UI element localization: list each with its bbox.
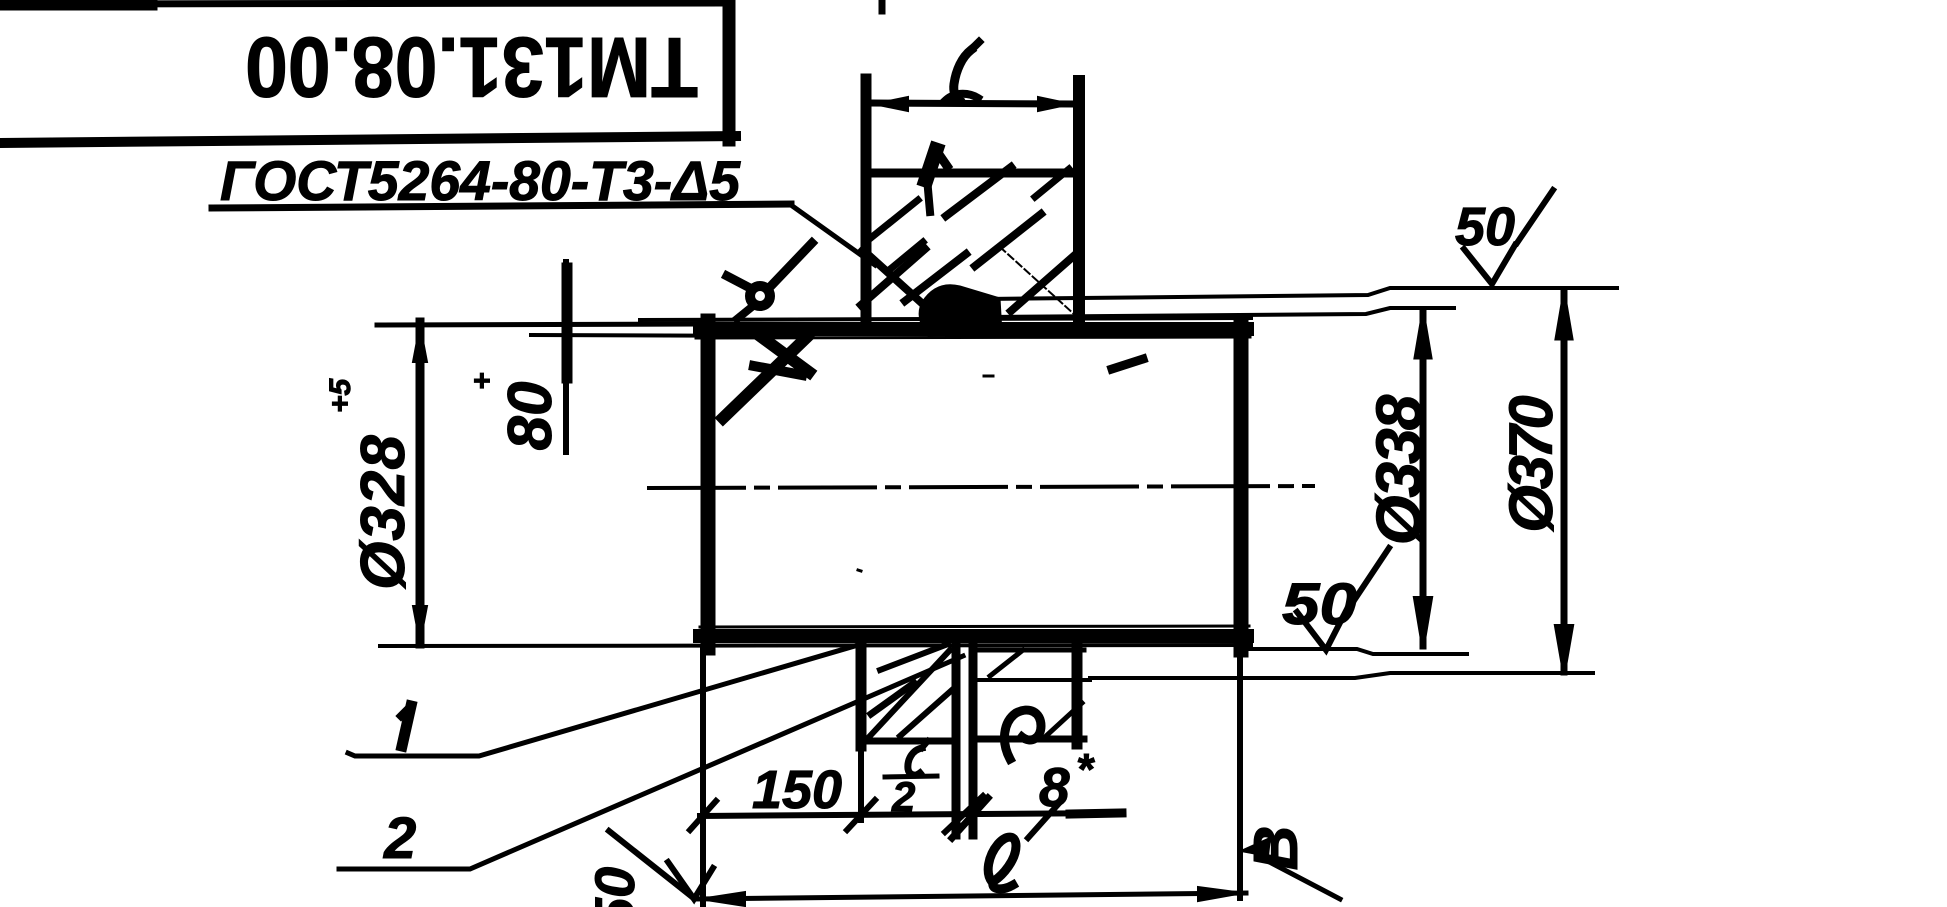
flange right extension line <box>1073 81 1085 330</box>
pipe top dashed band <box>700 322 1247 336</box>
weld X mark on flange edge <box>863 250 925 306</box>
bottom flange right box top edge <box>979 648 1084 653</box>
bottom full dim line <box>697 893 1246 899</box>
weld label A <box>723 337 807 418</box>
phi338 top arrow <box>1415 311 1431 358</box>
phi370 label rotated <box>1497 395 1565 532</box>
dimension L right arrow <box>1038 97 1071 111</box>
weld symbol lower stub <box>737 306 753 319</box>
label L <box>954 50 971 100</box>
svg-text:+5: +5 <box>324 377 357 413</box>
tick at 700 <box>690 801 716 830</box>
right upper extension line <box>985 288 1617 299</box>
speck 1 <box>984 375 993 378</box>
bottom dim line 150/L2/8 <box>700 813 1122 816</box>
weld symbol tail up-right <box>770 243 812 287</box>
phi370 dimension line <box>1561 291 1568 672</box>
leader 2 line <box>339 656 963 869</box>
svg-text:Ø338: Ø338 <box>1363 394 1435 545</box>
phi338 dimension line <box>1420 310 1427 646</box>
flange hatch 6 <box>1011 254 1076 311</box>
flange left extension line <box>861 79 872 330</box>
phi338 bottom arrow <box>1415 598 1431 646</box>
left dim top arrow <box>413 325 427 362</box>
svg-text:50: 50 <box>583 867 646 907</box>
dimension 80 label rotated <box>466 372 565 450</box>
label l script <box>988 837 1016 889</box>
weld bead blob <box>919 285 1002 336</box>
dimension L line <box>872 103 1073 104</box>
flange hatch 1 <box>872 200 918 237</box>
weld symbol tail up-left <box>727 276 750 288</box>
phi370 top arrow <box>1556 292 1572 339</box>
flange hatch 2 <box>888 242 923 271</box>
bottom flange right inner line <box>979 678 1090 682</box>
note leader to weld <box>791 205 875 265</box>
flange hatch 5 <box>975 214 1041 266</box>
bottom flange right box right edge <box>1072 644 1083 744</box>
pipe left edge <box>701 321 716 648</box>
flange hatch 3 <box>905 254 966 301</box>
bottom flange left box bottom edge <box>863 738 957 745</box>
svg-text:ТМ131.08.00: ТМ131.08.00 <box>245 19 698 114</box>
svg-text:50: 50 <box>1282 572 1357 637</box>
gap vertical 2 <box>969 642 978 835</box>
left dim label rotated <box>324 377 418 589</box>
bottom flange left box left ext <box>858 746 864 820</box>
left dimension vertical <box>416 322 425 644</box>
taper symbol glyph rotated <box>1242 826 1311 871</box>
pipe top thin edge <box>640 318 1251 320</box>
bottom flange left hatch 3 <box>880 644 948 670</box>
small tick top right <box>879 0 886 11</box>
svg-text:150: 150 <box>752 760 842 820</box>
pipe bottom dashed band <box>700 629 1247 643</box>
bottom flange left hatch 4 <box>900 690 952 736</box>
pipe right edge extension down <box>1237 650 1243 898</box>
bottom dim right arrow <box>1198 887 1243 901</box>
pipe top lower thin edge <box>696 337 1250 338</box>
title box top bar <box>0 3 721 4</box>
phi338 bottom extension <box>1247 649 1467 654</box>
weld symbol circle <box>750 286 770 306</box>
tick at 861 <box>847 800 875 830</box>
bottom flange left box left edge <box>856 644 867 746</box>
bottom dim left arrow <box>700 892 745 906</box>
svg-text:+: + <box>466 372 499 390</box>
flange hatch 7 <box>1035 169 1069 197</box>
phi370 bottom extension <box>1090 673 1593 678</box>
bottom flange right box bottom edge <box>973 736 1084 743</box>
gap vertical 1 <box>952 642 961 835</box>
svg-text:Ø370: Ø370 <box>1497 395 1565 532</box>
dimension 80 vertical <box>563 262 569 452</box>
scratch mark inside pipe <box>1112 359 1143 369</box>
pipe right edge <box>1234 321 1249 650</box>
bottom flange left hatch 1 <box>869 650 950 737</box>
second thin line <box>531 335 798 336</box>
label L/2 <box>908 748 922 775</box>
flange hatch check blob <box>926 150 936 180</box>
tick at gap <box>945 796 983 832</box>
phi338 label rotated <box>1363 394 1435 545</box>
note underline <box>212 204 791 208</box>
R mark curve <box>1004 710 1041 759</box>
svg-text:*: * <box>1076 745 1095 794</box>
flange hatch 4 <box>946 167 1011 216</box>
left extension line top <box>377 324 700 325</box>
bottom flange right hatch 2 <box>1045 703 1082 737</box>
pipe bottom upper thin edge <box>700 626 1249 627</box>
svg-text:Ø328: Ø328 <box>349 434 418 590</box>
pipe left edge extension down <box>700 648 706 905</box>
flange top edge <box>866 169 1079 178</box>
phi370 bottom arrow <box>1556 626 1572 672</box>
title box bottom edge <box>0 136 736 143</box>
leader 1 label <box>402 706 411 746</box>
svg-text:8: 8 <box>1039 756 1070 818</box>
leader 1 line <box>348 645 858 756</box>
taper symbol bottom right arrow <box>1241 838 1270 856</box>
flange hatch thin chain <box>1000 247 1075 315</box>
pipe bottom thin edge <box>380 645 1251 646</box>
dimension L left arrow <box>874 97 908 111</box>
speck 2 <box>858 570 861 571</box>
title text TM131.08.00 rotated 180 <box>245 19 698 114</box>
bottom flange left hatch 2 <box>871 683 914 714</box>
svg-text:2: 2 <box>891 773 915 820</box>
svg-text:2: 2 <box>383 806 416 871</box>
title box right edge <box>723 0 736 140</box>
bottom flange right hatch 1 <box>990 650 1023 676</box>
svg-text:80: 80 <box>496 382 565 451</box>
left dim bottom arrow <box>413 606 427 643</box>
center line <box>649 486 1313 488</box>
chamfer note 50 bottom left rotated <box>583 867 646 907</box>
right lower extension line <box>985 308 1454 317</box>
taper symbol slash <box>1258 856 1340 899</box>
